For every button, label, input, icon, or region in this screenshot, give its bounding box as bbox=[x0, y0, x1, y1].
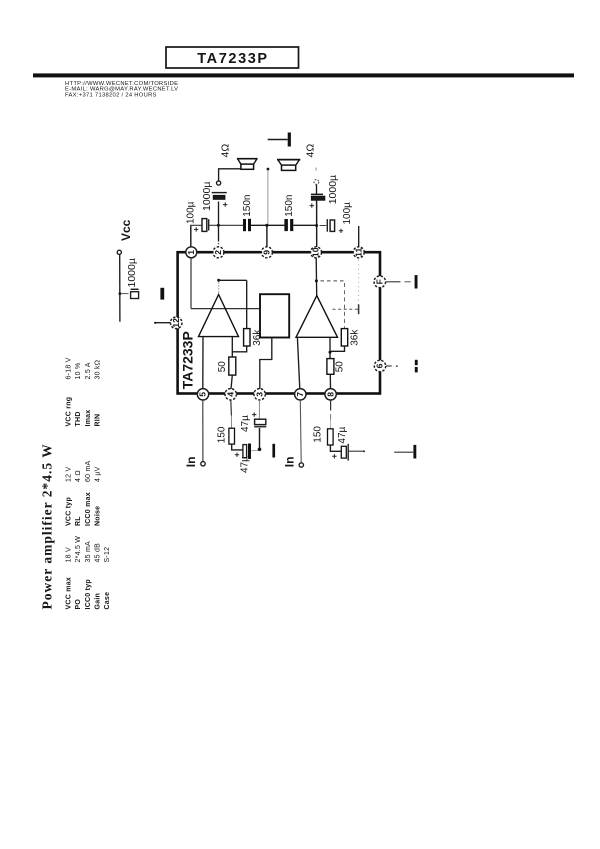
svg-text:5: 5 bbox=[198, 392, 208, 397]
resistor R2 50 bbox=[217, 357, 236, 375]
resistor R4 50 bbox=[327, 359, 346, 375]
wire pin5 to input bbox=[202, 400, 204, 461]
capacitor C6 100u (pin11) bbox=[327, 202, 353, 233]
block bias box bbox=[260, 294, 289, 337]
capacitor C7 1000u (Vcc decoupling) bbox=[126, 258, 138, 298]
wire rail mid bbox=[251, 224, 284, 226]
svg-text:Power amplifier 2*4.5 W: Power amplifier 2*4.5 W bbox=[40, 443, 55, 609]
wire C8 to junction bbox=[251, 449, 258, 452]
node junction on Vcc wire bbox=[119, 292, 122, 295]
ground pin6 bbox=[415, 360, 418, 373]
pin F bbox=[374, 276, 386, 288]
svg-text:FAX:+371 7138202 / 24 HOURS: FAX:+371 7138202 / 24 HOURS bbox=[65, 92, 157, 98]
wire bias box to pin3 bbox=[260, 338, 272, 390]
svg-text:150n: 150n bbox=[242, 195, 253, 217]
svg-text:S-12: S-12 bbox=[104, 547, 111, 563]
mark scan dash bbox=[160, 288, 164, 300]
table values column 1 bbox=[65, 536, 111, 563]
wire terminal to speaker bbox=[219, 169, 241, 181]
table values column 3 bbox=[65, 357, 101, 379]
wire C9 down bbox=[259, 428, 261, 448]
node junction rail/pin9 bbox=[265, 224, 268, 227]
wire R4 to pin8 bbox=[329, 374, 331, 389]
wire pin1 to cap 100u bbox=[190, 225, 192, 247]
svg-text:4Ω: 4Ω bbox=[304, 144, 316, 158]
node junction apex right bbox=[315, 279, 318, 282]
node dot bbox=[363, 450, 365, 452]
node junction rail/pin10 bbox=[315, 224, 318, 227]
pin 2 bbox=[213, 247, 224, 258]
node dot between speakers bbox=[267, 168, 270, 171]
svg-text:Imax: Imax bbox=[85, 410, 92, 427]
node junction input left bbox=[258, 448, 262, 452]
svg-text:12: 12 bbox=[171, 318, 181, 328]
node junction rail/pin2 bbox=[217, 224, 220, 227]
wire rail stub to 100u bbox=[320, 225, 327, 227]
svg-text:10: 10 bbox=[311, 247, 321, 257]
capacitor C4 1000u (right output) bbox=[310, 175, 339, 208]
svg-text:2: 2 bbox=[213, 250, 223, 255]
svg-text:PO: PO bbox=[75, 599, 82, 610]
wire 36k right bottom L bbox=[330, 346, 345, 351]
op-amp A1 bbox=[199, 295, 239, 337]
svg-text:Vcc: Vcc bbox=[119, 219, 133, 241]
svg-text:ICC0 typ: ICC0 typ bbox=[85, 579, 92, 609]
table values column 2 bbox=[65, 460, 101, 482]
svg-text:150: 150 bbox=[216, 426, 227, 443]
svg-text:2.5 A: 2.5 A bbox=[85, 362, 92, 379]
wire rail hook pin1 bbox=[190, 224, 202, 226]
wire pin10 inner to apex bbox=[315, 258, 318, 296]
svg-text:TA7233P: TA7233P bbox=[197, 51, 268, 67]
svg-text:30 kΩ: 30 kΩ bbox=[95, 360, 102, 380]
wire pin10 up bbox=[316, 200, 318, 247]
wire A2 left corner to pin7 bbox=[297, 337, 299, 389]
wire apex node to 36k bbox=[219, 279, 247, 281]
svg-text:F: F bbox=[375, 279, 385, 284]
svg-text:47µ: 47µ bbox=[240, 456, 251, 473]
capacitor C3 150n (left) bbox=[242, 195, 253, 232]
wire rail 100u to 150n bbox=[210, 224, 244, 226]
svg-text:150: 150 bbox=[312, 426, 323, 443]
resistor R1 36k bbox=[244, 329, 263, 346]
pin 12 bbox=[170, 317, 182, 329]
wire A1 output down bbox=[231, 337, 233, 357]
svg-text:47µ: 47µ bbox=[337, 426, 348, 443]
capacitor C1 100u (pin1 ripple) bbox=[185, 201, 208, 231]
svg-text:TA7233P: TA7233P bbox=[179, 331, 195, 389]
wire C10 right bbox=[349, 450, 364, 452]
title box TA7233P bbox=[166, 47, 299, 68]
wire dotted pin11 down bbox=[358, 260, 360, 303]
wire bar under pin11 bbox=[358, 304, 360, 314]
svg-text:10 %: 10 % bbox=[75, 363, 82, 380]
wire dashdot 36k right top bbox=[344, 283, 346, 329]
svg-text:12 V: 12 V bbox=[65, 467, 72, 482]
wire 36k bottom L bbox=[232, 346, 246, 352]
svg-text:8: 8 bbox=[325, 392, 335, 397]
svg-text:50: 50 bbox=[217, 361, 228, 373]
wire pin4 down bbox=[230, 400, 233, 428]
wire R5 to C8 bbox=[232, 444, 243, 450]
wire pin3 down bbox=[258, 400, 260, 419]
wire R2 to pin4 bbox=[231, 375, 232, 389]
wire pin8 down bbox=[330, 400, 332, 429]
wire pin9 up bbox=[266, 225, 268, 247]
wire stub to C Vcc bbox=[122, 293, 129, 295]
svg-text:VCC max: VCC max bbox=[65, 577, 72, 609]
wire A2 output down bbox=[329, 337, 331, 358]
node junction apex left bbox=[217, 279, 220, 282]
wire pin12 stub bbox=[155, 322, 171, 324]
svg-text:2*4.5 W: 2*4.5 W bbox=[75, 536, 82, 563]
svg-text:3: 3 bbox=[254, 392, 264, 397]
speaker LS2 bbox=[277, 144, 316, 171]
svg-text:6: 6 bbox=[375, 363, 385, 368]
capacitor C2 1000u (left output) bbox=[201, 182, 227, 211]
node Vcc terminal bbox=[117, 219, 133, 254]
wire pin7 to input bbox=[299, 400, 302, 463]
svg-text:47µ: 47µ bbox=[240, 415, 251, 432]
table labels column 2 bbox=[65, 492, 101, 526]
wire dashed y309 right bbox=[333, 308, 359, 310]
wire to bias box bbox=[191, 308, 260, 310]
svg-text:Noise: Noise bbox=[95, 506, 102, 526]
resistor R3 36k bbox=[341, 329, 360, 346]
ground input right bbox=[413, 445, 416, 459]
svg-text:1000µ: 1000µ bbox=[126, 258, 138, 287]
svg-text:45 dB: 45 dB bbox=[95, 543, 102, 563]
svg-text:In: In bbox=[184, 457, 198, 468]
wire pin6 stub bbox=[386, 365, 398, 367]
svg-text:THD: THD bbox=[75, 411, 82, 426]
wire speakers node down bbox=[267, 171, 269, 224]
node terminal In right bbox=[299, 463, 303, 467]
ground input left bbox=[272, 444, 275, 458]
svg-text:36k: 36k bbox=[349, 329, 360, 346]
ground F bbox=[415, 275, 418, 288]
wire Vcc vertical bbox=[119, 255, 121, 322]
svg-text:1000µ: 1000µ bbox=[201, 182, 213, 211]
table labels column 3 bbox=[65, 397, 101, 427]
wire pin2 to output cap bbox=[218, 202, 220, 248]
svg-text:Gain: Gain bbox=[95, 593, 102, 610]
svg-text:RL: RL bbox=[75, 516, 82, 526]
wire pin1 inner down bbox=[190, 258, 192, 309]
wire terminal to cap right bbox=[316, 185, 318, 194]
pin 10 bbox=[311, 247, 322, 258]
pin 4 bbox=[225, 389, 236, 400]
pin 1 bbox=[186, 247, 197, 258]
capacitor C8 47u bbox=[235, 444, 251, 474]
svg-text:4 Ω: 4 Ω bbox=[75, 470, 82, 482]
wire to ground right bbox=[394, 451, 413, 453]
svg-text:RIN: RIN bbox=[95, 414, 102, 427]
capacitor C5 150n (right) bbox=[284, 195, 295, 232]
svg-text:100µ: 100µ bbox=[185, 201, 196, 224]
wire pin11 up bbox=[358, 226, 360, 247]
capacitor C9 47u bbox=[240, 412, 266, 432]
svg-text:1000µ: 1000µ bbox=[327, 175, 339, 204]
node junction A2 output bbox=[329, 351, 332, 354]
pin 5 bbox=[197, 389, 208, 400]
svg-text:150n: 150n bbox=[284, 195, 295, 217]
node terminal In left bbox=[201, 462, 205, 466]
header rule bbox=[33, 73, 574, 77]
pin 3 bbox=[254, 389, 265, 400]
pin 6 bbox=[374, 360, 385, 371]
wire 36k top bbox=[246, 280, 248, 328]
svg-text:1: 1 bbox=[186, 250, 196, 255]
wire dashed apex right bbox=[321, 280, 346, 282]
svg-text:In: In bbox=[282, 457, 296, 468]
pin 11 bbox=[353, 247, 364, 258]
svg-text:4 µV: 4 µV bbox=[95, 466, 102, 482]
node dot left of pin12 bbox=[154, 322, 156, 324]
pin 8 bbox=[325, 389, 336, 400]
svg-text:35 mA: 35 mA bbox=[85, 541, 92, 563]
svg-text:VCC rng: VCC rng bbox=[65, 397, 72, 427]
ground top bbox=[268, 133, 291, 147]
node terminal left output bbox=[217, 181, 221, 185]
svg-text:7: 7 bbox=[295, 392, 305, 397]
svg-text:11: 11 bbox=[353, 248, 363, 257]
svg-text:VCC typ: VCC typ bbox=[65, 497, 72, 526]
IC U1 TA7233P body bbox=[178, 252, 380, 393]
table labels column 1 bbox=[65, 577, 111, 609]
capacitor C10 47u bbox=[332, 426, 348, 460]
wire A1 left corner to pin5 bbox=[202, 337, 204, 389]
svg-text:Case: Case bbox=[104, 592, 111, 610]
op-amp A2 bbox=[296, 296, 338, 338]
node terminal right output bbox=[314, 180, 319, 185]
svg-text:60 mA: 60 mA bbox=[85, 460, 92, 482]
pin 7 bbox=[295, 389, 306, 400]
svg-text:9: 9 bbox=[262, 250, 272, 255]
resistor R6 150 bbox=[312, 426, 333, 445]
wire right speaker stub bbox=[315, 168, 317, 171]
svg-text:ICC0 max: ICC0 max bbox=[85, 492, 92, 526]
svg-text:50: 50 bbox=[335, 361, 346, 373]
resistor R5 150 bbox=[216, 426, 234, 444]
speaker LS1 bbox=[220, 144, 258, 170]
watermark text bbox=[65, 81, 178, 98]
wire R6 to C10 bbox=[330, 445, 341, 451]
svg-text:100µ: 100µ bbox=[342, 202, 353, 225]
svg-text:4Ω: 4Ω bbox=[220, 144, 232, 158]
svg-text:4: 4 bbox=[225, 392, 235, 397]
wire dotted to apex bbox=[218, 283, 220, 294]
wire rail right bbox=[293, 224, 316, 226]
svg-text:6-18 V: 6-18 V bbox=[65, 357, 72, 379]
wire pin F to ground bbox=[386, 281, 411, 283]
svg-text:18 V: 18 V bbox=[65, 547, 72, 562]
pin 9 bbox=[261, 247, 272, 258]
